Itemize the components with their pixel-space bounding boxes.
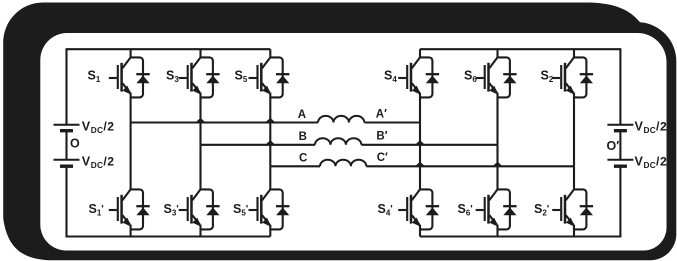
svg-text:C: C xyxy=(299,153,307,165)
svg-text:B: B xyxy=(299,131,307,143)
svg-text:O′: O′ xyxy=(607,139,620,153)
svg-text:C′: C′ xyxy=(377,152,388,164)
svg-text:O: O xyxy=(70,137,80,151)
svg-text:A′: A′ xyxy=(376,108,387,120)
svg-text:B′: B′ xyxy=(376,130,387,142)
svg-text:A: A xyxy=(298,109,306,121)
